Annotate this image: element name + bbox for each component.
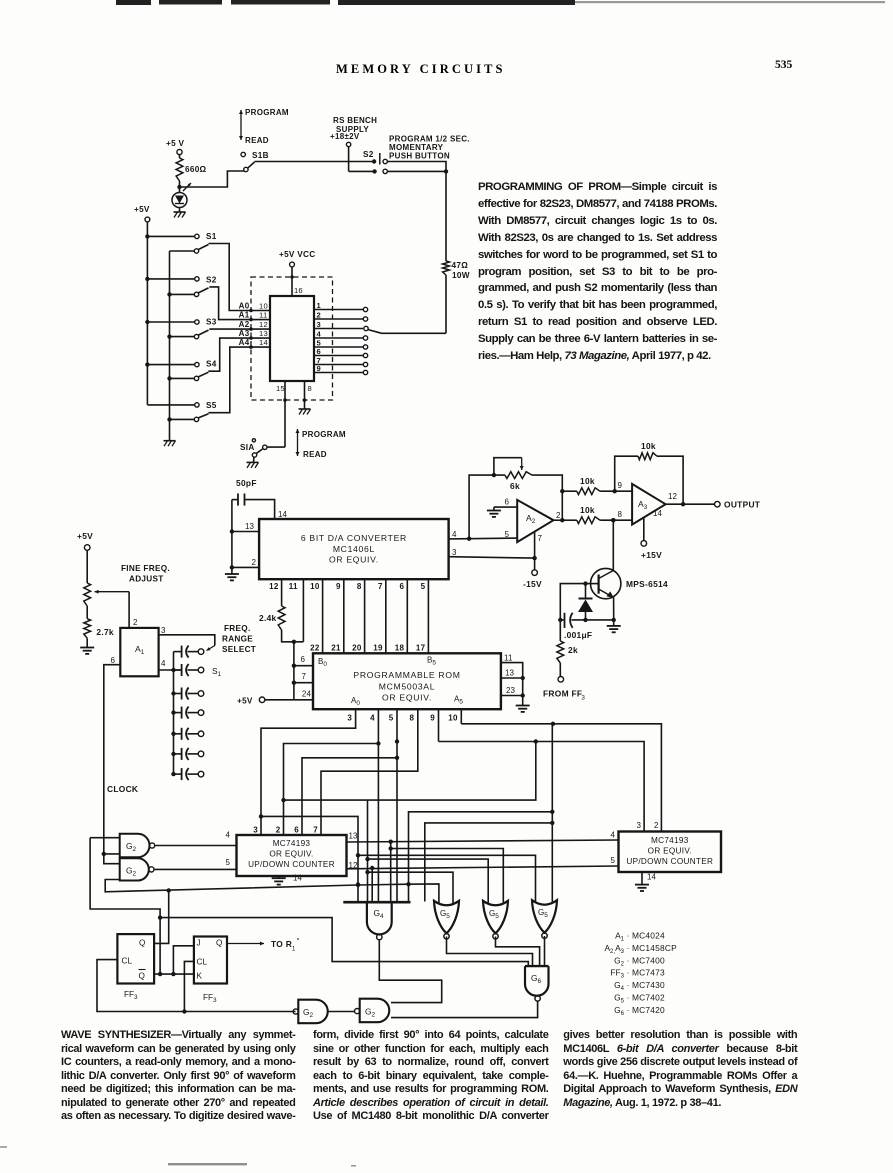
svg-text:': ': [297, 936, 299, 946]
svg-text:14: 14: [278, 510, 288, 519]
svg-text:CLOCK: CLOCK: [107, 784, 138, 794]
svg-text:17: 17: [416, 644, 426, 653]
svg-text:12: 12: [668, 492, 678, 501]
svg-text:14: 14: [647, 873, 657, 882]
svg-text:6: 6: [294, 826, 299, 835]
svg-text:A5: A5: [454, 695, 463, 706]
svg-text:FF3​: FF3​: [610, 968, 624, 980]
svg-text:7: 7: [313, 826, 318, 835]
svg-text:·: ·: [627, 993, 630, 1003]
svg-text:MC7430: MC7430: [632, 980, 665, 990]
svg-text:8: 8: [308, 384, 312, 393]
svg-text:13: 13: [349, 832, 359, 841]
svg-text:MCM5003AL: MCM5003AL: [379, 682, 435, 692]
svg-text:11: 11: [259, 311, 267, 320]
svg-text:20: 20: [352, 644, 362, 653]
svg-text:OUTPUT: OUTPUT: [724, 500, 761, 510]
svg-text:18: 18: [395, 644, 405, 653]
svg-text:1: 1: [292, 947, 296, 953]
svg-text:G5: G5: [489, 909, 499, 920]
svg-text:S5: S5: [206, 401, 217, 410]
svg-text:S4: S4: [206, 360, 217, 369]
svg-text:2: 2: [556, 511, 561, 520]
svg-text:G2: G2: [303, 1007, 314, 1019]
svg-text:8: 8: [617, 510, 622, 519]
svg-text:A1​: A1​: [615, 931, 625, 943]
svg-text:+5V: +5V: [237, 697, 253, 706]
svg-text:50pF: 50pF: [236, 478, 257, 488]
svg-text:G2: G2: [126, 866, 137, 878]
svg-text:RANGE: RANGE: [222, 635, 253, 644]
svg-text:G4​: G4​: [614, 980, 625, 992]
svg-text:PROGRAM: PROGRAM: [245, 108, 289, 117]
svg-text:Q: Q: [216, 939, 222, 948]
svg-text:9: 9: [336, 582, 341, 591]
svg-text:1: 1: [317, 301, 322, 310]
svg-text:SIA: SIA: [240, 443, 255, 452]
svg-text:A4: A4: [239, 338, 250, 347]
svg-text:10W: 10W: [452, 271, 470, 280]
svg-text:B5: B5: [427, 656, 436, 667]
svg-text:14: 14: [259, 338, 268, 347]
svg-text:UP/DOWN COUNTER: UP/DOWN COUNTER: [248, 860, 335, 869]
svg-text:6k: 6k: [510, 481, 520, 491]
svg-text:10: 10: [310, 582, 320, 591]
svg-text:A1: A1: [239, 311, 250, 320]
svg-text:OR EQUIV.: OR EQUIV.: [382, 693, 432, 703]
svg-text:+15V: +15V: [641, 550, 662, 560]
svg-text:Q: Q: [139, 939, 145, 948]
svg-text:RS BENCH: RS BENCH: [333, 116, 377, 125]
svg-text:6: 6: [317, 347, 322, 356]
svg-text:G2: G2: [126, 841, 137, 853]
svg-text:6: 6: [400, 582, 405, 591]
svg-text:+5V VCC: +5V VCC: [279, 250, 315, 259]
svg-text:3: 3: [452, 548, 457, 557]
svg-text:·: ·: [627, 931, 630, 941]
svg-text:PROGRAMMABLE ROM: PROGRAMMABLE ROM: [353, 670, 460, 680]
svg-text:2: 2: [133, 618, 138, 627]
svg-text:11: 11: [504, 654, 513, 663]
svg-text:J: J: [197, 939, 201, 948]
svg-text:5: 5: [610, 856, 615, 865]
svg-text:5: 5: [389, 714, 394, 723]
svg-text:OR EQUIV.: OR EQUIV.: [269, 850, 313, 859]
svg-text:3: 3: [636, 821, 641, 830]
svg-text:CL: CL: [122, 957, 133, 966]
svg-text:MC7420: MC7420: [632, 1005, 665, 1015]
svg-text:6: 6: [110, 656, 115, 665]
svg-text:4: 4: [161, 659, 166, 668]
svg-text:Q: Q: [139, 972, 145, 981]
svg-text:3: 3: [161, 626, 166, 635]
svg-text:2.4k: 2.4k: [259, 613, 277, 623]
svg-text:G6​: G6​: [614, 1005, 625, 1017]
svg-text:G5: G5: [538, 908, 548, 919]
svg-text:3: 3: [317, 320, 322, 329]
svg-text:13: 13: [505, 669, 515, 678]
svg-text:4: 4: [370, 714, 375, 723]
svg-text:S1B: S1B: [252, 151, 269, 160]
svg-text:21: 21: [331, 644, 341, 653]
svg-text:10: 10: [259, 302, 268, 311]
svg-text:10k: 10k: [641, 441, 656, 451]
svg-text:A2,​A3​: A2,​A3​: [604, 943, 624, 955]
svg-text:2: 2: [317, 311, 322, 320]
svg-text:FINE FREQ.: FINE FREQ.: [121, 564, 170, 573]
svg-text:·: ·: [627, 955, 630, 965]
svg-text:MC4024: MC4024: [632, 931, 665, 941]
svg-text:SELECT: SELECT: [222, 645, 256, 654]
svg-text:MC7402: MC7402: [632, 993, 665, 1003]
svg-text:+18±2V: +18±2V: [330, 132, 360, 141]
svg-text:S3: S3: [206, 318, 217, 327]
svg-text:3: 3: [253, 826, 258, 835]
svg-text:-15V: -15V: [523, 579, 542, 589]
svg-text:10: 10: [448, 714, 458, 723]
svg-text:8: 8: [357, 582, 362, 591]
svg-text:MC1406L: MC1406L: [333, 544, 375, 554]
svg-text:S1: S1: [212, 666, 222, 678]
svg-text:MC74193: MC74193: [273, 839, 311, 848]
svg-text:PUSH BUTTON: PUSH BUTTON: [389, 151, 450, 160]
svg-text:MC74193: MC74193: [651, 836, 689, 845]
svg-text:9: 9: [317, 364, 322, 373]
svg-text:660Ω: 660Ω: [185, 165, 207, 174]
svg-text:12: 12: [269, 582, 279, 591]
svg-text:22: 22: [310, 644, 320, 653]
svg-text:14: 14: [653, 509, 663, 518]
svg-text:G6: G6: [531, 973, 542, 985]
svg-text:4: 4: [317, 330, 322, 339]
svg-text:9: 9: [617, 481, 622, 490]
svg-text:·: ·: [627, 1005, 630, 1015]
svg-text:FREQ.: FREQ.: [224, 624, 251, 633]
svg-text:A2: A2: [239, 320, 250, 329]
svg-text:+5V: +5V: [77, 531, 93, 541]
svg-text:G2: G2: [365, 1007, 376, 1019]
svg-text:12: 12: [259, 320, 268, 329]
svg-text:15: 15: [276, 384, 285, 393]
svg-text:MC7400: MC7400: [632, 955, 665, 965]
svg-text:4: 4: [225, 831, 230, 840]
svg-text:3: 3: [582, 696, 586, 702]
svg-text:G4: G4: [374, 908, 385, 920]
svg-text:READ: READ: [245, 136, 269, 145]
svg-text:MPS-6514: MPS-6514: [626, 579, 668, 589]
svg-text:·: ·: [627, 943, 630, 953]
svg-text:FF3: FF3: [203, 993, 217, 1004]
svg-text:13: 13: [245, 522, 255, 531]
svg-text:19: 19: [373, 644, 383, 653]
svg-text:8: 8: [410, 714, 415, 723]
svg-text:2k: 2k: [568, 645, 578, 655]
svg-text:CL: CL: [197, 958, 208, 967]
svg-text:MC1458CP: MC1458CP: [632, 943, 677, 953]
svg-text:A1: A1: [135, 644, 145, 656]
svg-text:UP/DOWN COUNTER: UP/DOWN COUNTER: [626, 857, 713, 866]
svg-text:24: 24: [302, 690, 312, 699]
svg-text:.001μF: .001μF: [564, 630, 592, 640]
svg-text:TO R: TO R: [271, 939, 292, 949]
svg-text:7: 7: [538, 534, 543, 543]
svg-text:A3: A3: [239, 329, 250, 338]
svg-text:OR EQUIV.: OR EQUIV.: [648, 847, 692, 856]
svg-text:47Ω: 47Ω: [452, 261, 469, 270]
svg-text:A0: A0: [239, 302, 250, 311]
svg-text:PROGRAM: PROGRAM: [302, 430, 346, 439]
svg-text:A0: A0: [351, 696, 360, 707]
svg-text:11: 11: [289, 582, 298, 591]
svg-text:S2: S2: [206, 275, 217, 284]
svg-text:ADJUST: ADJUST: [129, 575, 164, 584]
svg-text:OR EQUIV.: OR EQUIV.: [329, 555, 379, 565]
svg-text:MC7473: MC7473: [632, 968, 665, 978]
svg-text:2: 2: [276, 826, 281, 835]
svg-text:10k: 10k: [580, 476, 595, 486]
svg-text:16: 16: [294, 286, 303, 295]
svg-text:·: ·: [627, 968, 630, 978]
svg-text:B0: B0: [318, 657, 327, 668]
svg-text:S1: S1: [206, 232, 217, 241]
svg-text:5: 5: [225, 858, 230, 867]
svg-text:S2: S2: [363, 150, 374, 159]
svg-text:2: 2: [654, 821, 659, 830]
svg-text:10k: 10k: [580, 505, 595, 515]
svg-text:G2​: G2​: [614, 955, 625, 967]
svg-text:4: 4: [610, 831, 615, 840]
svg-text:14: 14: [293, 874, 303, 883]
svg-text:READ: READ: [303, 450, 327, 459]
svg-text:3: 3: [347, 714, 352, 723]
svg-text:13: 13: [259, 329, 268, 338]
svg-text:FF3: FF3: [124, 990, 138, 1001]
svg-text:A3: A3: [638, 499, 648, 511]
svg-text:+5V: +5V: [134, 205, 150, 214]
svg-text:G5​: G5​: [614, 993, 625, 1005]
svg-text:+5 V: +5 V: [166, 139, 185, 148]
svg-text:·: ·: [627, 980, 630, 990]
svg-text:A2: A2: [526, 513, 536, 525]
svg-text:7: 7: [301, 672, 306, 681]
svg-text:6 BIT D/A CONVERTER: 6 BIT D/A CONVERTER: [301, 533, 407, 543]
svg-text:2: 2: [252, 558, 257, 567]
svg-text:5: 5: [504, 530, 509, 539]
svg-text:6: 6: [300, 655, 305, 664]
svg-text:6: 6: [504, 498, 509, 507]
svg-text:4: 4: [452, 530, 457, 539]
svg-text:7: 7: [378, 582, 383, 591]
svg-text:G5: G5: [440, 909, 450, 920]
svg-text:K: K: [197, 972, 203, 981]
svg-text:9: 9: [430, 714, 435, 723]
svg-text:23: 23: [506, 686, 516, 695]
svg-text:5: 5: [421, 582, 426, 591]
svg-text:2.7k: 2.7k: [96, 627, 114, 637]
svg-text:FROM FF: FROM FF: [543, 689, 582, 699]
